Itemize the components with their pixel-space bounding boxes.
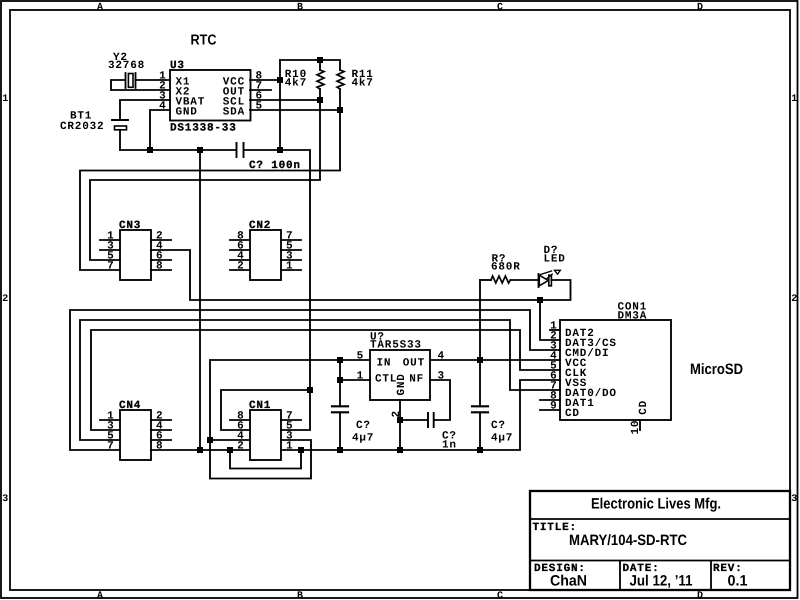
svg-text:1: 1 — [286, 261, 293, 273]
svg-text:D: D — [697, 2, 703, 13]
wire C4 to ground rail — [479, 412, 481, 450]
wire U? pin2 GND stub — [399, 400, 401, 450]
CN3 box — [120, 230, 151, 280]
CN3 pin numbers — [107, 231, 163, 273]
svg-text:5: 5 — [256, 101, 263, 113]
value label C? 4u7 right — [491, 420, 513, 445]
svg-text:SDA: SDA — [223, 107, 245, 119]
wire VCC riser x480 — [479, 280, 481, 406]
CN2 pin numbers — [237, 231, 293, 273]
CON1 stub pin1 — [550, 329, 560, 331]
svg-text:0.1: 0.1 — [728, 573, 748, 590]
wire SCL route R10 to CN3 pin5 — [90, 89, 320, 260]
wire X1 crystal to U3 pin1 — [136, 79, 171, 81]
resistor R? 680R — [491, 276, 510, 283]
svg-text:C?: C? — [356, 420, 371, 432]
wire U3 pin8 VCC — [250, 79, 280, 81]
svg-text:CD: CD — [565, 408, 580, 420]
label R10 4k7 — [285, 69, 307, 90]
svg-text:CD: CD — [638, 400, 650, 415]
label U? TAR5S33 — [370, 332, 422, 352]
CN1 stub pin7 — [281, 419, 301, 421]
regulator U? box — [370, 350, 430, 400]
wire LED cathode return — [540, 280, 571, 300]
wire ground rail — [120, 149, 236, 151]
svg-text:1: 1 — [357, 371, 364, 383]
border row labels right — [791, 94, 797, 505]
svg-text:OUT: OUT — [403, 358, 425, 370]
wire CN3 pin4 DAT3/CS route — [151, 250, 540, 300]
title block DESIGN — [534, 563, 587, 590]
label R? 680R — [491, 254, 521, 274]
wire cap to VCC corner down x310 and to CN1 pin5 — [244, 150, 310, 430]
svg-text:Electronic Lives Mfg.: Electronic Lives Mfg. — [591, 496, 721, 513]
svg-text:2: 2 — [791, 294, 797, 305]
LED D? — [539, 270, 561, 287]
wire U3 pin5 SDA stub — [250, 109, 340, 111]
svg-text:DS1338-33: DS1338-33 — [170, 123, 237, 135]
U3 pin numbers — [159, 71, 263, 113]
CON1 pin names — [565, 328, 617, 420]
svg-text:32768: 32768 — [108, 60, 145, 72]
CN2 box — [250, 230, 281, 280]
svg-text:D: D — [697, 591, 703, 600]
wire 1n cap left lead — [400, 419, 427, 421]
border row labels left — [2, 94, 8, 505]
wire riser x340 to capacitor — [339, 360, 341, 406]
CN2 stub pins 8,6,4,2 — [230, 240, 250, 270]
svg-text:3: 3 — [2, 494, 8, 505]
svg-text:C: C — [497, 2, 503, 13]
svg-text:9: 9 — [550, 401, 557, 413]
CN1 stub pin1 — [281, 449, 301, 451]
title block DATE — [623, 563, 693, 590]
title block REV — [713, 563, 748, 590]
svg-text:2: 2 — [391, 410, 403, 417]
wire U3 pin6 SCL stub — [250, 99, 320, 101]
svg-text:U3: U3 — [170, 60, 185, 72]
svg-text:7: 7 — [107, 261, 114, 273]
wire CN4 pin8 ground rail left — [151, 449, 230, 451]
wire top rail R10 R11 — [280, 60, 340, 70]
svg-text:680R: 680R — [491, 262, 521, 274]
label BT1 CR2032 — [60, 111, 104, 134]
value label C? 4u7 left — [352, 420, 374, 445]
svg-text:4µ7: 4µ7 — [352, 433, 374, 445]
value label C? 1n — [442, 431, 457, 452]
wire U3 pin4 GND down — [150, 110, 170, 150]
svg-text:CN2: CN2 — [249, 220, 271, 232]
wire VCC corner to resistor — [480, 279, 491, 281]
wire U3 pin7 stub — [250, 89, 271, 91]
svg-text:RTC: RTC — [191, 33, 217, 49]
CON1 pin10 labels CD 10 — [630, 400, 650, 435]
crystal Y2 — [126, 73, 136, 88]
svg-text:5: 5 — [357, 351, 364, 363]
wire CN1 pin3 VIN loop riser and input line to U? — [210, 360, 370, 479]
wire ground loop under CN1 — [230, 450, 301, 469]
wire C1 to ground rail — [339, 412, 341, 450]
wire SDA route R11 to CN3 pin7 — [80, 89, 340, 270]
wire CLK net CN4 pin3 to CON1 pin5 — [91, 330, 560, 430]
CN1 stub pin8 — [230, 419, 250, 421]
CN2 stub pins 7,5,3,1 — [281, 240, 301, 270]
CN1 box — [250, 410, 281, 460]
svg-text:B: B — [297, 591, 303, 600]
svg-text:A: A — [97, 2, 103, 13]
svg-text:GND: GND — [176, 107, 198, 119]
svg-text:3: 3 — [438, 371, 445, 383]
CN3 stub pins 2,6,8 — [151, 240, 171, 270]
svg-text:7: 7 — [107, 441, 114, 453]
wire battery minus to ground rail — [119, 130, 121, 150]
resistor R11 — [337, 70, 344, 89]
svg-text:10: 10 — [630, 420, 642, 435]
svg-text:GND: GND — [396, 373, 408, 395]
svg-text:IN: IN — [377, 358, 392, 370]
svg-text:NF: NF — [409, 374, 424, 386]
CN4 stub pin 1 — [100, 419, 120, 421]
wire ground rail right to CON1 pin6 VSS — [301, 380, 560, 450]
wire resistor to LED anode — [510, 279, 538, 281]
wire VCC vertical x280 — [279, 60, 281, 150]
U3 box — [170, 70, 251, 121]
svg-text:2: 2 — [237, 441, 244, 453]
svg-text:LED: LED — [544, 254, 566, 266]
svg-text:C? 100n: C? 100n — [249, 160, 301, 172]
border column labels bottom — [97, 591, 703, 600]
svg-text:ChaN: ChaN — [550, 573, 587, 590]
CN4 box — [120, 410, 151, 460]
svg-text:TAR5S33: TAR5S33 — [370, 340, 422, 352]
svg-text:1: 1 — [2, 94, 8, 105]
title block frame — [530, 491, 790, 590]
wire DAT3/CS to CON1 pin2 — [540, 300, 560, 340]
capacitor C? 1n — [428, 413, 434, 427]
svg-text:2: 2 — [2, 294, 8, 305]
wire crystal loop to U3 pin2 X2 — [111, 80, 170, 90]
resistor R10 — [317, 70, 324, 89]
battery BT1 — [112, 120, 128, 130]
wire U? OUT to CON1 pin4 VCC — [430, 359, 560, 361]
ground vertical wire x200 — [199, 150, 201, 450]
svg-text:4: 4 — [438, 351, 445, 363]
svg-text:CN1: CN1 — [249, 400, 271, 412]
wire CMD/DI net CN4 pin7 to CON1 pin3 — [70, 310, 560, 450]
svg-text:A: A — [97, 591, 103, 600]
wire DAT0/DO net CN4 pin5 to CON1 pin7 — [80, 320, 560, 440]
svg-text:MicroSD: MicroSD — [690, 361, 743, 378]
svg-text:3: 3 — [791, 494, 797, 505]
svg-text:4k7: 4k7 — [285, 78, 307, 90]
wire VBAT U3 pin3 to battery — [120, 100, 170, 120]
U3 pin names — [176, 77, 246, 119]
CN4 stub pins 2,4,6 — [151, 420, 171, 440]
CN3 stub pins 1,3 — [100, 240, 120, 250]
svg-text:CR2032: CR2032 — [60, 121, 104, 133]
CN4 pin numbers — [107, 411, 163, 453]
CON1 stub pin10 — [639, 420, 641, 430]
label Y2 32768 — [108, 52, 145, 72]
svg-text:8: 8 — [156, 261, 163, 273]
label R11 4k7 — [352, 69, 374, 90]
svg-text:4k7: 4k7 — [352, 78, 374, 90]
border column labels top — [97, 2, 703, 13]
connector CON1 box — [560, 320, 671, 420]
U? pin names — [375, 358, 425, 396]
svg-text:C?: C? — [491, 420, 506, 432]
wire CN1 pin6 to RTC VCC riser — [221, 390, 310, 430]
svg-text:DM3A: DM3A — [618, 311, 648, 323]
capacitor C? 100n — [237, 143, 244, 157]
wire CTL pin1 — [340, 379, 370, 381]
wire U? pin3 NF to 1n cap — [430, 380, 450, 420]
svg-text:CN3: CN3 — [119, 220, 141, 232]
svg-text:1: 1 — [286, 441, 293, 453]
label D? LED — [544, 245, 566, 266]
svg-text:4: 4 — [159, 101, 166, 113]
svg-text:2: 2 — [237, 261, 244, 273]
svg-text:1n: 1n — [442, 440, 457, 452]
CN1 pin numbers — [237, 411, 293, 453]
CON1 stub pins 8,9 — [540, 400, 560, 410]
svg-text:4µ7: 4µ7 — [491, 433, 513, 445]
svg-text:8: 8 — [156, 441, 163, 453]
label CON1 DM3A — [618, 302, 648, 323]
svg-text:1: 1 — [791, 94, 797, 105]
svg-text:C: C — [497, 591, 503, 600]
CN1 stub pin2 — [230, 449, 250, 451]
capacitor C? 4u7 left — [332, 406, 348, 412]
svg-text:CTL: CTL — [375, 374, 397, 386]
CON1 pin numbers — [550, 321, 557, 413]
capacitor C? 4u7 right — [472, 406, 488, 412]
svg-text:Jul 12, ’11: Jul 12, ’11 — [630, 573, 693, 590]
U? pin numbers — [357, 351, 445, 418]
svg-text:CN4: CN4 — [119, 400, 141, 412]
svg-text:MARY/104-SD-RTC: MARY/104-SD-RTC — [569, 532, 687, 549]
wire CN1 pin4 — [210, 439, 250, 441]
svg-text:B: B — [297, 2, 303, 13]
